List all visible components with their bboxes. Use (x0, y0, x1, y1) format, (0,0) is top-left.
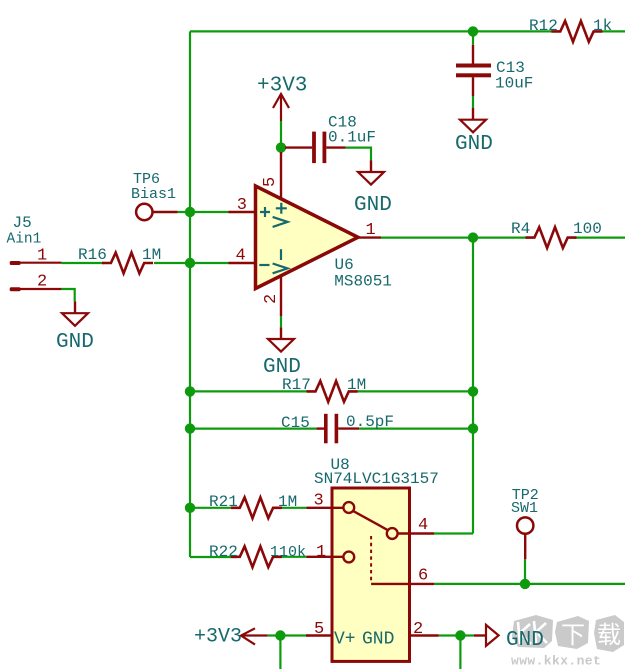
svg-text:GND: GND (354, 194, 392, 217)
svg-text:1M: 1M (278, 493, 297, 511)
svg-text:SN74LVC1G3157: SN74LVC1G3157 (314, 470, 439, 488)
svg-text:GND: GND (506, 629, 544, 652)
svg-text:www.kkx.net: www.kkx.net (511, 654, 601, 669)
svg-text:R4: R4 (511, 220, 530, 238)
svg-text:R21: R21 (209, 493, 238, 511)
svg-text:SW1: SW1 (511, 500, 538, 517)
svg-text:2: 2 (413, 620, 423, 639)
svg-text:1: 1 (316, 543, 326, 562)
svg-text:+3V3: +3V3 (257, 75, 307, 98)
svg-text:10uF: 10uF (495, 75, 533, 93)
svg-text:1k: 1k (593, 17, 612, 35)
svg-text:GND: GND (455, 133, 493, 156)
svg-text:0.5pF: 0.5pF (346, 413, 394, 431)
svg-text:R12: R12 (529, 17, 558, 35)
svg-text:110k: 110k (270, 544, 306, 561)
svg-text:5: 5 (314, 620, 324, 639)
svg-text:1: 1 (37, 247, 47, 266)
svg-text:R16: R16 (78, 246, 107, 264)
svg-text:下: 下 (561, 624, 585, 651)
svg-text:2: 2 (262, 294, 281, 304)
svg-text:GND: GND (263, 356, 301, 379)
svg-text:J5: J5 (13, 214, 32, 232)
svg-text:5: 5 (261, 177, 280, 187)
svg-text:C15: C15 (281, 414, 310, 432)
svg-text:GND: GND (362, 630, 394, 650)
svg-text:V+: V+ (334, 630, 356, 650)
svg-text:100: 100 (573, 220, 602, 238)
svg-text:3: 3 (237, 196, 247, 215)
svg-text:Bias1: Bias1 (131, 186, 176, 203)
svg-text:0.1uF: 0.1uF (328, 129, 376, 147)
svg-text:1M: 1M (142, 246, 161, 264)
svg-text:2: 2 (37, 273, 47, 292)
svg-text:载: 载 (597, 622, 621, 651)
svg-text:Ain1: Ain1 (7, 232, 42, 248)
svg-text:4: 4 (418, 516, 428, 535)
svg-text:GND: GND (56, 331, 94, 354)
svg-text:1M: 1M (347, 376, 366, 394)
svg-text:R22: R22 (209, 543, 238, 561)
svg-text:U6: U6 (335, 256, 354, 274)
svg-text:4: 4 (236, 247, 246, 266)
svg-text:+3V3: +3V3 (194, 626, 242, 649)
svg-text:3: 3 (314, 492, 324, 511)
svg-text:6: 6 (418, 567, 428, 586)
svg-text:MS8051: MS8051 (334, 273, 392, 291)
svg-text:1: 1 (366, 221, 376, 240)
